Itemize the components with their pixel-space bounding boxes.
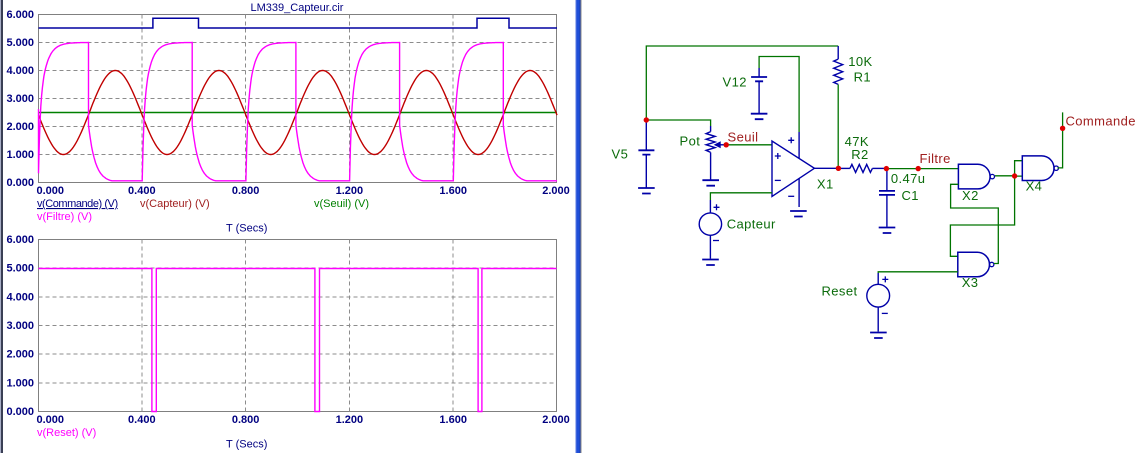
svg-text:2.000: 2.000 [6,349,34,361]
svg-text:Filtre: Filtre [920,151,951,166]
node Seuil wire to op-amp + input [726,144,772,146]
svg-text:Capteur: Capteur [727,217,776,232]
svg-text:10K: 10K [848,54,872,69]
svg-text:1.200: 1.200 [336,185,364,197]
svg-text:R1: R1 [854,70,871,85]
svg-text:0.000: 0.000 [6,406,34,418]
ground under V5 [638,188,655,194]
wire X3 output feedback to X2 lower input [951,184,999,263]
svg-text:4.000: 4.000 [6,291,34,303]
svg-text:C1: C1 [902,188,919,203]
wire X4 output to node Commande [1058,112,1063,167]
ground under Capteur [702,260,719,266]
junction X4 input node [1012,173,1017,178]
svg-text:X2: X2 [962,188,979,203]
plot 1 frame [39,15,557,183]
gate X4 [1022,156,1054,181]
junction V5 node [644,117,649,122]
ground under Reset [870,333,887,339]
wire V12 to op-amp V+ pin [759,57,799,133]
junction node Commande [1060,126,1065,131]
wire C1 node to X2 input (node Filtre) [886,168,958,170]
plot 2 grid [39,268,557,383]
svg-text:3.000: 3.000 [6,320,34,332]
svg-text:6.000: 6.000 [6,9,34,21]
svg-text:0.400: 0.400 [128,414,156,426]
junction X1 output node [836,166,841,171]
svg-text:X4: X4 [1026,179,1043,194]
svg-text:5.000: 5.000 [6,37,34,49]
svg-text:3.000: 3.000 [6,93,34,105]
wire Capteur to op-amp - input [710,193,772,200]
potentiometer Pot [710,126,712,132]
svg-text:v(Capteur) (V): v(Capteur) (V) [140,198,210,210]
panel divider [576,0,577,453]
wire X4 input stubs [1015,161,1023,176]
trace v(Capteur) red sine [39,71,558,155]
trace v(Seuil) green [39,112,558,114]
wire V5 node to potentiometer top [646,120,710,126]
battery V12 [758,68,760,77]
junction C1 node [884,166,889,171]
op-amp X1 [772,141,814,197]
svg-text:1.000: 1.000 [6,149,34,161]
svg-text:Seuil: Seuil [728,130,759,145]
svg-text:T (Secs): T (Secs) [226,223,267,235]
svg-text:LM339_Capteur.cir: LM339_Capteur.cir [251,2,344,14]
capacitor C1 [886,169,888,191]
svg-text:0.800: 0.800 [232,414,260,426]
gate X2 [958,164,990,189]
ground under C1 [879,228,896,234]
svg-text:1.200: 1.200 [336,414,364,426]
trace v(Filtre) magenta [39,43,558,181]
svg-text:5.000: 5.000 [6,263,34,275]
svg-text:0.000: 0.000 [37,185,65,197]
svg-text:2.000: 2.000 [542,185,570,197]
wire X2 output to X4 input node [995,175,1015,177]
svg-text:T (Secs): T (Secs) [226,439,267,451]
junction node Seuil [724,142,729,147]
svg-text:v(Filtre) (V): v(Filtre) (V) [37,211,92,223]
svg-text:0.000: 0.000 [37,414,65,426]
svg-text:v(Commande) (V): v(Commande) (V) [37,198,118,210]
svg-text:V5: V5 [612,147,629,162]
svg-text:V12: V12 [723,75,747,90]
gate X3 [958,252,990,277]
plot 2 frame [39,240,557,412]
plot 1 grid [39,43,557,155]
resistor R2 [838,167,850,169]
svg-text:1.600: 1.600 [439,185,467,197]
source Reset [867,284,890,307]
svg-text:6.000: 6.000 [6,234,34,246]
svg-text:0.47u: 0.47u [891,171,926,186]
svg-text:4.000: 4.000 [6,65,34,77]
resistor R1 [837,46,839,59]
svg-text:R2: R2 [851,147,868,162]
svg-text:0.800: 0.800 [232,185,260,197]
svg-text:Commande: Commande [1066,114,1136,129]
svg-text:X3: X3 [962,275,979,290]
ground under op-amp [790,211,807,217]
svg-text:1.600: 1.600 [439,414,467,426]
ground under Pot [702,180,719,186]
svg-text:0.000: 0.000 [6,177,34,189]
battery V5 [645,120,647,150]
wire Reset to X3 lower input [878,272,958,273]
trace v(Reset) magenta [39,269,557,412]
svg-text:X1: X1 [817,177,834,192]
ground under V12 [751,114,768,120]
svg-text:Reset: Reset [822,284,858,299]
wire feedback X4 input node down to X3 top input [950,176,1014,256]
wire R1 bottom to output node [837,84,839,168]
trace v(Commande) blue digital [39,18,558,28]
wire top rail from V5 node to R1 [646,46,838,120]
svg-text:2.000: 2.000 [542,414,570,426]
svg-text:2.000: 2.000 [6,121,34,133]
svg-text:v(Seuil) (V): v(Seuil) (V) [314,198,369,210]
svg-text:Pot: Pot [680,134,701,149]
junction node Filtre [916,166,921,171]
source Capteur [699,213,721,235]
svg-text:0.400: 0.400 [128,185,156,197]
svg-text:1.000: 1.000 [6,377,34,389]
svg-text:v(Reset) (V): v(Reset) (V) [37,427,96,439]
window left border [0,0,1,453]
